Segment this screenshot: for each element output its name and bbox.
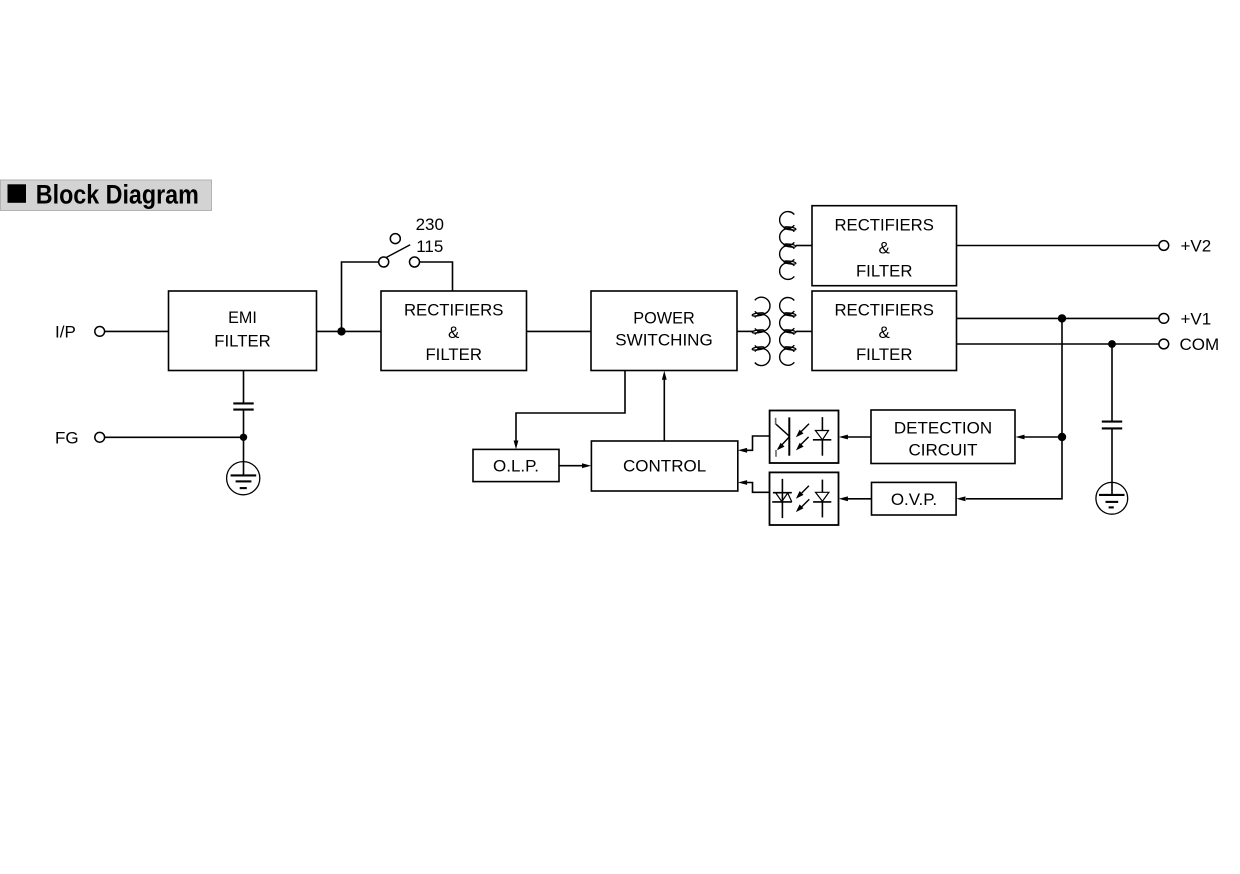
wire EMI to rectifiers1 <box>317 330 382 332</box>
capacitor C2 (COM to earth) <box>1102 422 1122 429</box>
capacitor C1 (EMI to FG) <box>233 403 253 409</box>
svg-text:FILTER: FILTER <box>856 345 913 364</box>
wire detection node to detection circuit <box>1024 436 1062 438</box>
svg-text:DETECTION: DETECTION <box>894 418 992 437</box>
wire detection node down and left to O.V.P. <box>966 437 1062 499</box>
svg-text:CONTROL: CONTROL <box>623 457 706 476</box>
wire FG to junction <box>105 436 244 438</box>
terminal I/P <box>95 327 105 337</box>
svg-text:&: & <box>879 238 891 257</box>
wire capacitor C1 to earth ground left <box>243 410 245 476</box>
svg-text:&: & <box>448 323 460 342</box>
svg-text:O.L.P.: O.L.P. <box>493 457 539 476</box>
wire rectifiers2 to COM terminal <box>957 343 1160 345</box>
svg-text:COM: COM <box>1180 335 1220 354</box>
svg-text:FILTER: FILTER <box>425 345 482 364</box>
transformer T1 secondary winding lower <box>780 298 797 366</box>
optocoupler U2 box <box>770 472 839 525</box>
block DETECTION CIRCUIT <box>871 410 1015 464</box>
arrowhead into power switching bottom <box>662 371 667 380</box>
svg-text:&: & <box>879 323 891 342</box>
arrowhead into CONTROL left <box>582 463 591 468</box>
wire detection circuit to optocoupler U1 <box>847 436 871 438</box>
wire power switching down to O.L.P. <box>516 371 625 442</box>
svg-text:+V2: +V2 <box>1181 237 1212 256</box>
block O.V.P. <box>872 482 957 515</box>
wire switch to rectifiers1 top <box>420 262 453 291</box>
junction node FG <box>240 434 247 441</box>
block RECTIFIERS & FILTER 2 (lower, +V1/COM) <box>812 291 957 371</box>
wire optocoupler U1 to CONTROL <box>746 436 770 450</box>
junction node +V1 <box>1058 314 1066 322</box>
title bullet square <box>8 184 27 203</box>
svg-text:FILTER: FILTER <box>856 261 913 280</box>
svg-text:CIRCUIT: CIRCUIT <box>909 440 978 459</box>
svg-text:I/P: I/P <box>55 323 76 342</box>
arrowhead into CONTROL right lower <box>738 480 747 485</box>
wire EMI bottom to capacitor C1 <box>243 371 245 404</box>
svg-text:RECTIFIERS: RECTIFIERS <box>404 301 504 320</box>
wire COM node down to capacitor <box>1111 344 1113 422</box>
svg-text:RECTIFIERS: RECTIFIERS <box>834 301 934 320</box>
arrowhead into optocoupler U1 right <box>839 435 848 440</box>
optocoupler U1 box <box>770 411 839 464</box>
svg-text:POWER: POWER <box>633 308 694 327</box>
wire rectifiers3 to +V2 terminal <box>957 245 1160 247</box>
switch SW1 230/115 <box>379 234 420 267</box>
optocoupler U1 light arrows <box>796 424 809 451</box>
wire capacitor to earth ground right <box>1111 428 1113 495</box>
svg-text:FG: FG <box>55 428 79 447</box>
block RECTIFIERS & FILTER 1 <box>381 291 527 371</box>
optocoupler U1 phototransistor <box>776 417 790 456</box>
svg-text:SWITCHING: SWITCHING <box>615 331 713 350</box>
svg-text:+V1: +V1 <box>1181 309 1212 328</box>
wire rectifiers2 to +V1 terminal <box>957 317 1160 319</box>
arrowhead into O.L.P. top <box>514 441 519 450</box>
svg-text:RECTIFIERS: RECTIFIERS <box>834 216 934 235</box>
arrowhead into detection circuit right <box>1015 435 1024 440</box>
junction node detection <box>1058 433 1066 441</box>
junction node A <box>337 327 345 335</box>
svg-text:Block Diagram: Block Diagram <box>36 179 199 209</box>
transformer T1 secondary winding upper <box>780 212 797 280</box>
svg-text:FILTER: FILTER <box>214 331 271 350</box>
arrowhead into CONTROL right upper <box>738 448 747 453</box>
optocoupler U2 shunt regulator <box>772 479 792 518</box>
junction node COM <box>1108 340 1116 348</box>
transformer T1 primary winding <box>752 297 770 365</box>
optocoupler U1 LED <box>813 417 831 456</box>
terminal +V1 <box>1159 314 1169 324</box>
earth ground right <box>1096 482 1128 514</box>
arrowhead into O.V.P. right <box>956 496 965 501</box>
svg-text:O.V.P.: O.V.P. <box>891 490 937 509</box>
wire node A up to switch <box>342 262 379 331</box>
block CONTROL <box>591 441 737 491</box>
svg-text:230: 230 <box>416 215 444 234</box>
svg-text:EMI: EMI <box>228 308 257 327</box>
wire secondary upper to rectifiers3 <box>796 245 812 247</box>
optocoupler U2 LED <box>813 480 831 518</box>
terminal COM <box>1159 339 1169 349</box>
svg-text:115: 115 <box>416 237 443 256</box>
block POWER SWITCHING <box>591 291 737 371</box>
terminal FG <box>95 432 105 442</box>
wire optocoupler U2 to CONTROL <box>746 483 770 493</box>
wire CONTROL up to power switching <box>663 379 665 441</box>
wire secondary lower to rectifiers2 <box>796 330 812 332</box>
wire +V1 node down to detection node <box>1061 318 1063 437</box>
wire O.L.P. to CONTROL <box>559 465 584 467</box>
wire I/P to EMI filter <box>105 330 169 332</box>
earth ground left <box>227 462 260 495</box>
arrowhead into optocoupler U2 right <box>839 496 848 501</box>
block RECTIFIERS & FILTER 3 (upper, +V2) <box>812 206 957 286</box>
wire rectifiers1 to power switching <box>527 330 592 332</box>
wire O.V.P. to optocoupler U2 <box>847 498 872 500</box>
title bar <box>1 180 212 211</box>
block EMI FILTER <box>169 291 317 371</box>
block O.L.P. <box>473 449 559 481</box>
terminal +V2 <box>1159 241 1169 251</box>
optocoupler U2 light arrows <box>796 486 809 512</box>
wire power switching to transformer primary <box>737 330 753 332</box>
